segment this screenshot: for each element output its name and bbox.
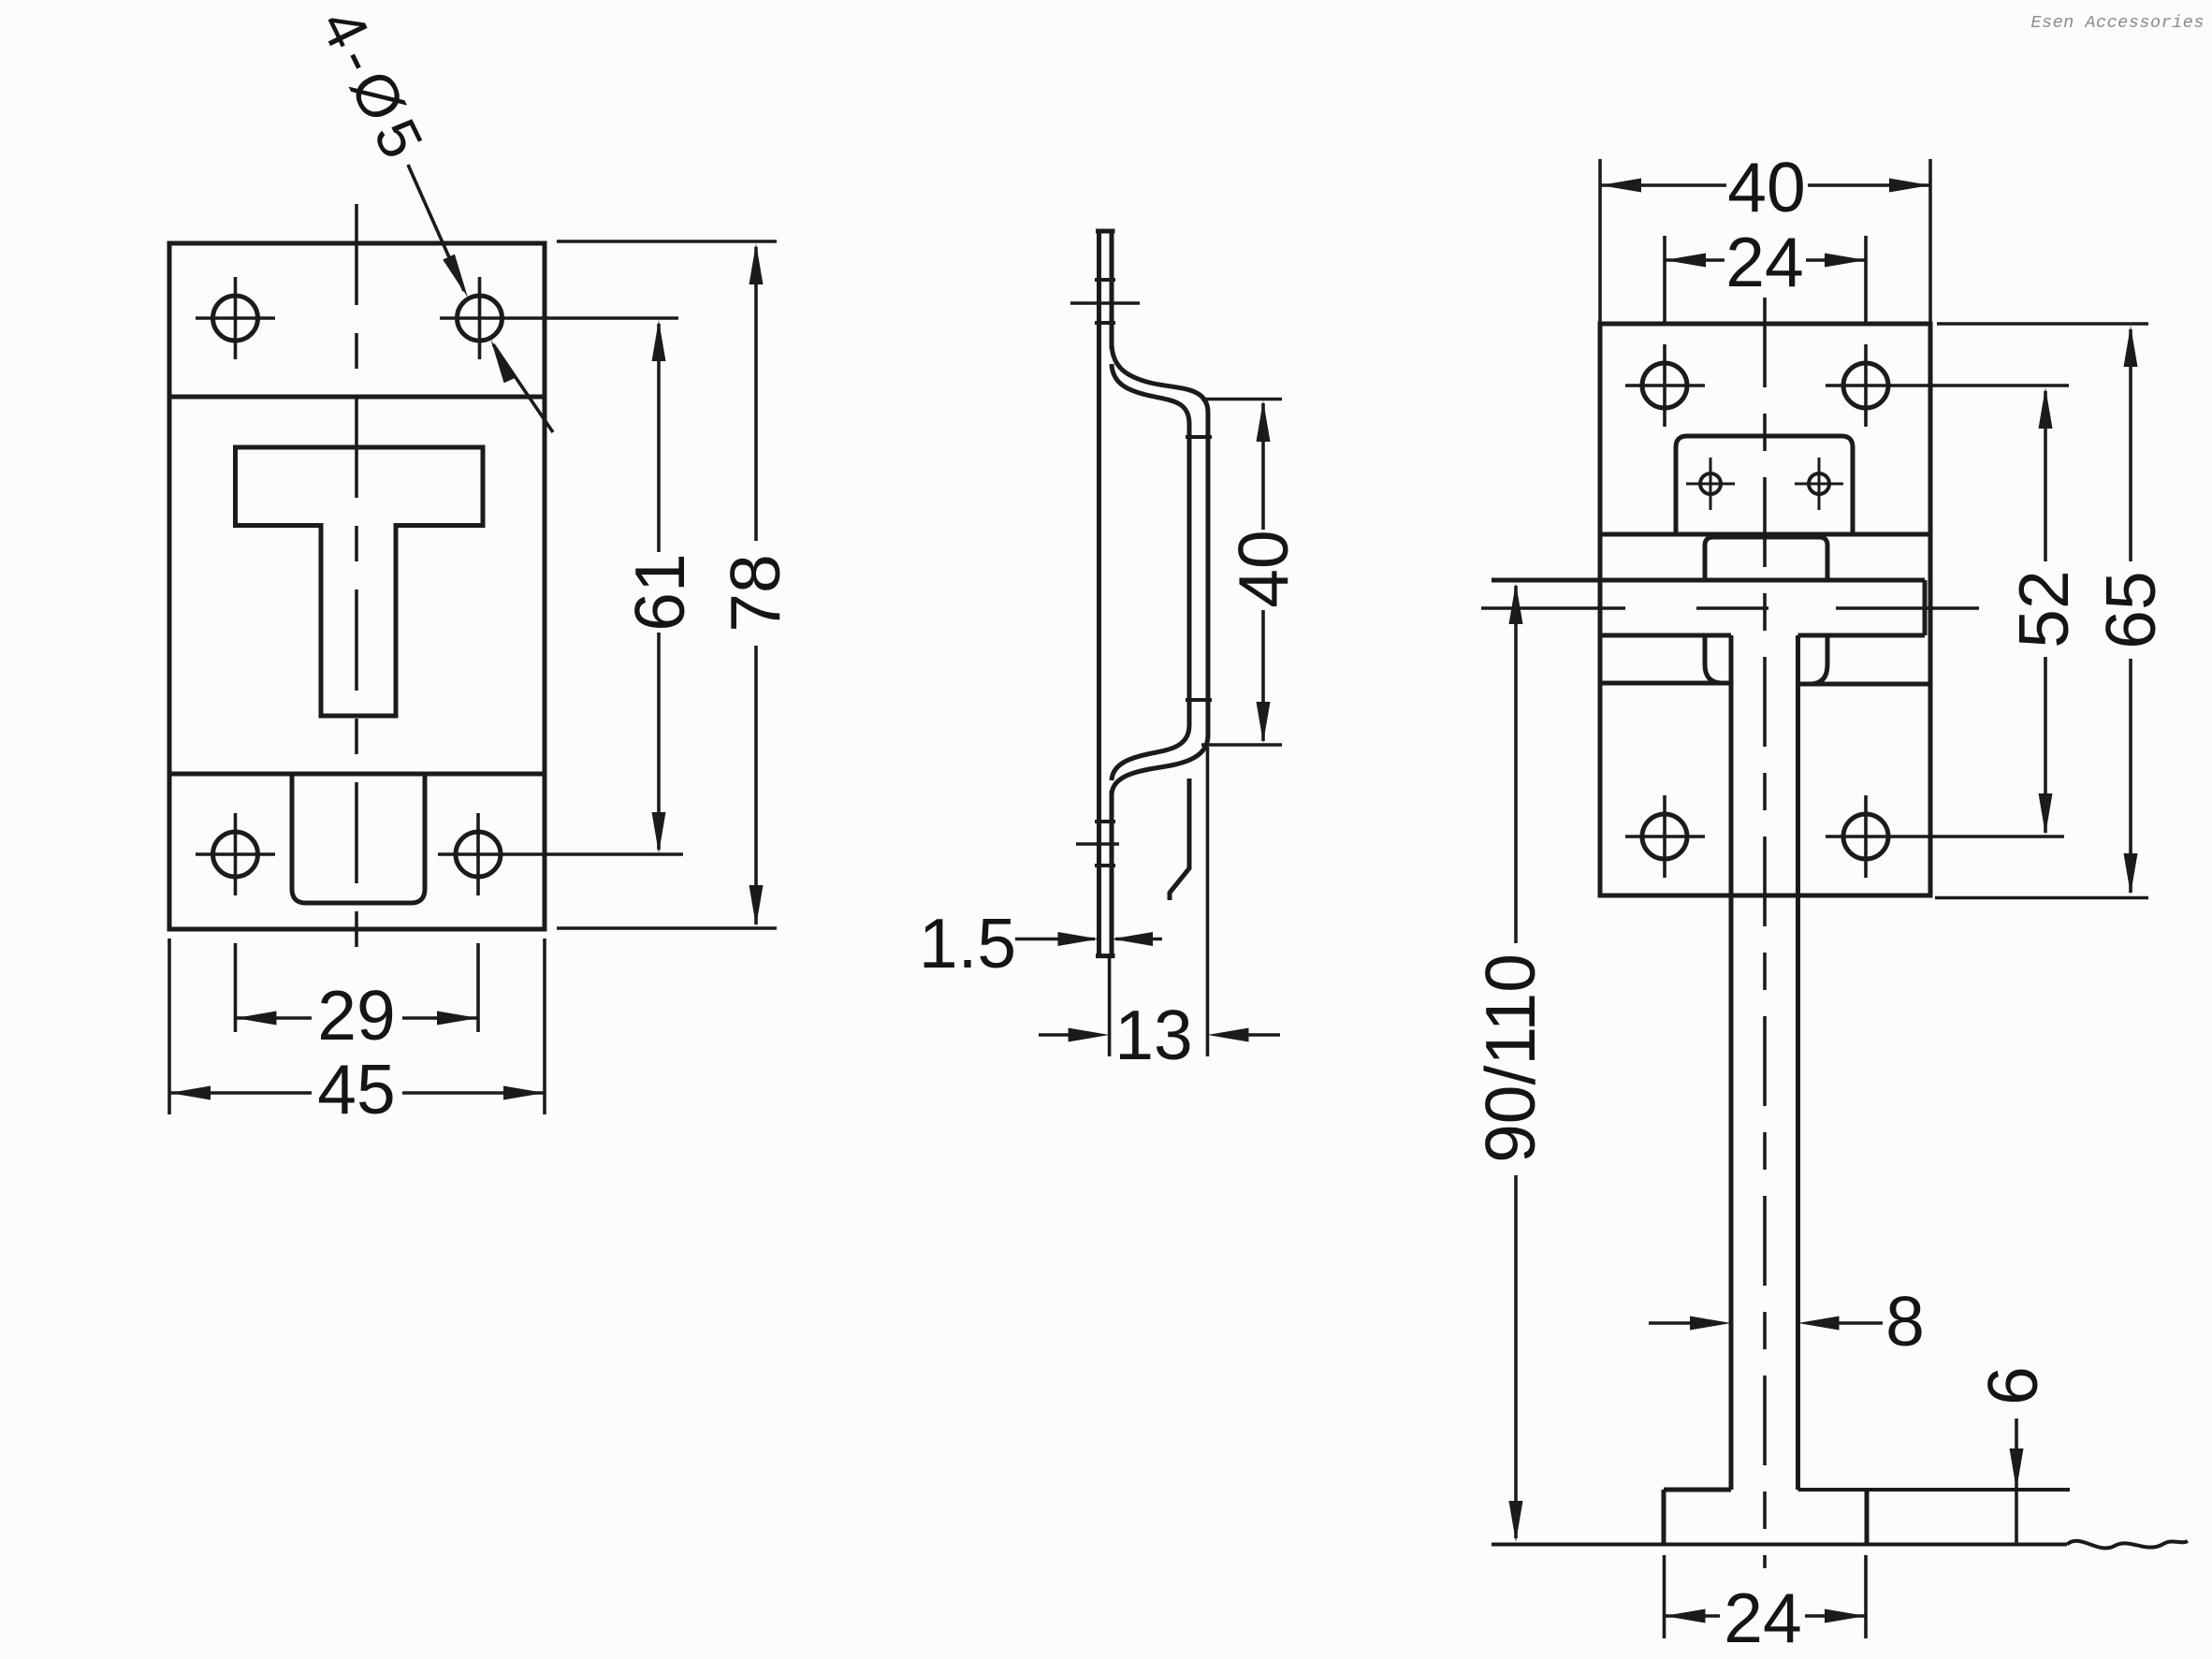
svg-text:13: 13 — [1114, 996, 1192, 1074]
dimension 24 top text — [1725, 223, 1803, 301]
latch bar right end — [1923, 580, 1928, 635]
keeper lower tab right — [1798, 635, 1931, 684]
dimension 78 line — [749, 243, 764, 926]
mounting hole top-left — [196, 277, 275, 359]
dimension 24 top line — [1665, 254, 1866, 268]
side view handle outer profile — [1112, 344, 1208, 794]
dimension 24 bottom text — [1724, 1579, 1801, 1657]
foot right edge — [1865, 1490, 1870, 1544]
rear view plate outline — [1600, 324, 1930, 895]
foot top edge — [1664, 1488, 2070, 1492]
mounting hole bottom-right — [438, 813, 683, 895]
mounting hole top-right — [440, 277, 678, 359]
side view strip top cap — [1096, 229, 1115, 234]
stem right edge — [1796, 635, 1800, 1490]
dimension 65 text — [2091, 571, 2170, 648]
side view handle inner profile — [1112, 364, 1189, 780]
side view handle hole ticks — [1186, 437, 1212, 700]
dimension 45 extension lines — [169, 939, 545, 1114]
dimension 61 text — [620, 553, 699, 631]
dimension 90-110 line — [1509, 583, 1523, 1542]
rear plate hole top-right — [1826, 344, 2069, 427]
keeper lower tab left — [1600, 635, 1731, 683]
svg-text:90/110: 90/110 — [1471, 953, 1550, 1163]
dimension 29 line — [236, 1011, 479, 1026]
dimension 65 line — [2124, 326, 2138, 895]
front view plate outline — [169, 243, 545, 929]
side view strip left line — [1097, 231, 1101, 956]
hole callout leader upper — [408, 165, 468, 298]
stem centerline — [1763, 298, 1767, 1568]
dimension 52 text — [2004, 570, 2083, 648]
dimension 65 extension lines — [1935, 324, 2148, 898]
keeper rivet hole left — [1686, 458, 1735, 510]
U slot cutout — [292, 774, 425, 903]
svg-text:Esen Accessories: Esen Accessories — [2030, 13, 2205, 33]
dimension 40 top line — [1600, 179, 1930, 193]
rear view keeper base line — [1600, 532, 1930, 537]
dimension 61 line — [652, 320, 666, 853]
rear plate hole top-left — [1625, 344, 1705, 427]
latch bar bottom edge — [1600, 633, 1925, 638]
keeper rivet hole right — [1795, 458, 1843, 510]
dimension 1.5 text — [919, 904, 1016, 982]
svg-text:6: 6 — [1973, 1366, 2052, 1405]
side view strip right line upper — [1110, 231, 1114, 349]
foot left edge — [1662, 1490, 1666, 1544]
dimension 8 line — [1649, 1317, 1883, 1331]
dimension 90-110 text — [1471, 953, 1550, 1163]
baseline extension line — [1492, 1541, 2188, 1549]
dimension 13 line — [1039, 1028, 1280, 1042]
svg-text:61: 61 — [620, 553, 699, 631]
svg-text:45: 45 — [317, 1050, 395, 1128]
front view vertical centerline — [355, 204, 358, 950]
side view bottom hole centerline — [1076, 842, 1119, 846]
svg-text:4-Ø5: 4-Ø5 — [307, 0, 439, 175]
svg-text:40: 40 — [1224, 530, 1302, 607]
dimension 40 extension lines — [1201, 400, 1282, 746]
rear plate hole bottom-right — [1826, 795, 2064, 878]
side view top hole centerline — [1070, 301, 1140, 305]
dimension 29 text — [317, 976, 395, 1055]
hole callout leader lower — [491, 340, 554, 432]
dimension 40 top text — [1727, 148, 1805, 226]
mounting hole bottom-left — [196, 813, 275, 895]
svg-text:8: 8 — [1885, 1282, 1925, 1361]
svg-text:24: 24 — [1724, 1579, 1801, 1657]
svg-text:65: 65 — [2091, 571, 2170, 648]
dimension 78 text — [716, 554, 794, 632]
T-shaped cutout — [236, 447, 484, 716]
dimension 24 bottom extension lines — [1665, 1555, 1867, 1638]
dimension 78 extension lines — [557, 241, 777, 928]
front view lower section line — [169, 772, 545, 777]
front view upper section line — [169, 395, 545, 400]
dimension 29 extension lines — [236, 943, 479, 1032]
dimension 6 text — [1973, 1366, 2052, 1405]
dimension 52 line — [2039, 387, 2053, 835]
svg-text:1.5: 1.5 — [919, 904, 1016, 982]
rear plate hole bottom-left — [1625, 795, 1705, 878]
side view bent tab — [1170, 779, 1189, 900]
dimension 13 extension lines — [1110, 747, 1208, 1056]
dimension 45 text — [317, 1050, 395, 1128]
dimension 40 line — [1257, 400, 1271, 743]
dimension 45 line — [169, 1086, 545, 1100]
bar tongue under keeper — [1705, 537, 1827, 581]
side view top hole edge ticks — [1095, 280, 1115, 323]
side view strip right line lower — [1110, 791, 1114, 956]
dimension 24 bottom line — [1665, 1609, 1867, 1623]
side view bottom hole edge ticks — [1095, 822, 1115, 866]
dimension 13 text — [1114, 996, 1192, 1074]
dimension 6 line — [2010, 1419, 2024, 1544]
side view strip bottom cap — [1096, 953, 1115, 958]
svg-text:78: 78 — [716, 554, 794, 632]
svg-text:52: 52 — [2004, 570, 2083, 648]
dimension 1.5 line — [1015, 932, 1162, 946]
dimension 40 top extension lines — [1600, 159, 1930, 323]
svg-text:40: 40 — [1727, 148, 1805, 226]
stem left edge — [1729, 635, 1734, 1490]
svg-text:24: 24 — [1725, 223, 1803, 301]
dimension 40 text — [1224, 530, 1302, 607]
rear view keeper bracket — [1676, 436, 1853, 534]
latch bar centerline — [1481, 606, 1979, 610]
latch bar top edge — [1492, 578, 1925, 583]
hole callout text 4-D5 — [307, 0, 439, 175]
dimension 24 top extension lines — [1665, 236, 1866, 323]
watermark text — [2030, 13, 2205, 33]
dimension 8 text — [1885, 1282, 1925, 1361]
svg-text:29: 29 — [317, 976, 395, 1055]
